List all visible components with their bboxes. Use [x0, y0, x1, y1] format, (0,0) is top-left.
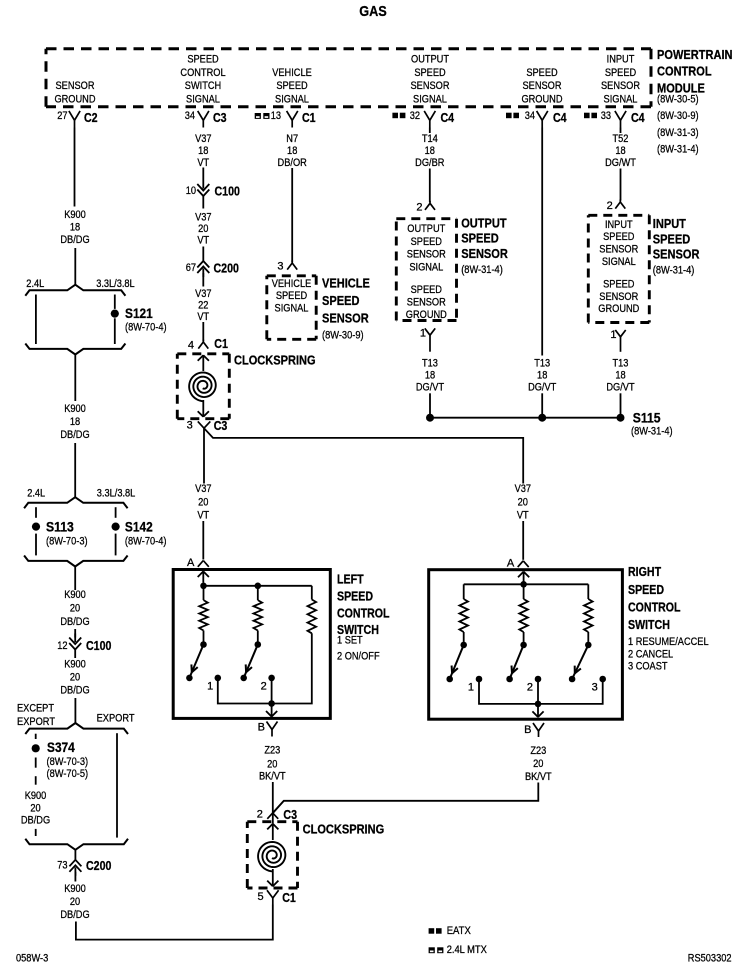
wire from C200 inline	[74, 872, 76, 882]
svg-text:T13: T13	[613, 357, 629, 369]
wire rail to R5	[523, 584, 525, 599]
wire label K900 20 DB/DG third	[60, 589, 89, 628]
svg-text:VEHICLE: VEHICLE	[322, 275, 370, 290]
svg-text:DB/DG: DB/DG	[60, 234, 89, 246]
connector C3 pin 2 at clockspring	[257, 801, 297, 822]
node R4 pivot	[460, 642, 467, 649]
split brace top at S113	[24, 497, 128, 508]
wire label V37 20 VT	[195, 211, 211, 246]
svg-text:(8W-31-4): (8W-31-4)	[631, 426, 673, 438]
svg-text:SIGNAL: SIGNAL	[275, 94, 309, 106]
clockspring U2 entry arrow	[198, 355, 209, 371]
svg-text:2: 2	[257, 808, 263, 820]
node T13 col4 junction	[426, 414, 434, 422]
svg-text:SPEED: SPEED	[461, 231, 499, 246]
inline connector C200 pin 73	[57, 859, 111, 876]
svg-text:DG/VT: DG/VT	[416, 382, 444, 394]
clockspring U3 coil	[258, 842, 285, 871]
svg-text:B: B	[258, 722, 265, 734]
svg-text:C200: C200	[86, 859, 111, 873]
svg-text:C1: C1	[214, 337, 228, 351]
wire to C100 inline	[74, 629, 76, 638]
svg-text:20: 20	[518, 497, 528, 509]
node R2 pivot	[254, 641, 261, 648]
node left switch entry	[200, 583, 207, 590]
svg-text:A: A	[187, 557, 195, 569]
wire to clockspring C1	[202, 322, 204, 341]
svg-text:EXPORT: EXPORT	[17, 716, 55, 728]
svg-text:2: 2	[261, 680, 267, 692]
pcm pin label VEHICLE SPEED SIGNAL	[272, 67, 312, 106]
resistor R3 left switch	[308, 600, 317, 634]
wire label V37 22 VT	[195, 288, 211, 323]
branch wire 3.3L/3.8L	[114, 295, 116, 345]
label EXCEPT EXPORT	[17, 702, 55, 727]
splice S121	[111, 305, 167, 334]
svg-text:1 RESUME/ACCEL: 1 RESUME/ACCEL	[628, 636, 709, 648]
svg-text:3: 3	[592, 681, 598, 693]
merge brace bottom at S121	[25, 344, 125, 355]
wire contact 1 to rail	[218, 678, 272, 704]
svg-text:T14: T14	[422, 133, 438, 145]
svg-text:N7: N7	[286, 133, 298, 145]
node left switch rail R2	[254, 583, 261, 590]
node contact 1 left	[207, 675, 221, 693]
svg-text:(8W-31-4): (8W-31-4)	[657, 143, 699, 155]
connector A right switch	[507, 557, 529, 569]
wire N7 to vehicle speed sensor	[291, 168, 293, 262]
node R1 pivot	[200, 641, 207, 648]
svg-text:POWERTRAIN: POWERTRAIN	[657, 47, 733, 62]
svg-text:K900: K900	[64, 589, 86, 601]
output speed sensor box	[396, 219, 456, 321]
svg-text:SWITCH: SWITCH	[628, 618, 670, 632]
node arm COAST tip	[569, 676, 576, 683]
legend EATX	[429, 925, 472, 937]
merge brace bottom at S374	[25, 839, 128, 850]
svg-text:18: 18	[70, 222, 80, 234]
branch wire S113	[35, 507, 37, 555]
svg-text:13: 13	[271, 110, 281, 122]
svg-text:V37: V37	[195, 211, 211, 223]
clockspring U3 box	[247, 822, 297, 888]
resistor R2 left switch	[254, 600, 263, 630]
resistor R6 right switch	[584, 599, 593, 632]
svg-text:(8W-70-4): (8W-70-4)	[125, 536, 167, 548]
node left switch exit junction	[268, 700, 275, 707]
wire label K900 20 DB/DG fifth	[60, 883, 89, 921]
svg-text:C3: C3	[283, 808, 297, 822]
svg-text:VT: VT	[197, 311, 209, 323]
pcm pin label SPEED SENSOR GROUND	[521, 67, 562, 106]
svg-text:RS503302: RS503302	[688, 953, 732, 965]
merge brace bottom at S113	[24, 556, 128, 567]
svg-text:3: 3	[187, 419, 193, 431]
svg-text:Z23: Z23	[530, 745, 546, 757]
svg-text:DB/DG: DB/DG	[60, 429, 89, 441]
svg-text:SIGNAL: SIGNAL	[604, 94, 638, 106]
svg-text:18: 18	[70, 416, 80, 428]
svg-text:SPEED: SPEED	[276, 290, 307, 302]
svg-text:27: 27	[57, 110, 67, 122]
svg-text:OUTPUT: OUTPUT	[411, 54, 449, 66]
svg-text:SPEED: SPEED	[411, 236, 442, 248]
svg-text:2 CANCEL: 2 CANCEL	[628, 648, 673, 660]
svg-text:SENSOR: SENSOR	[56, 80, 95, 92]
svg-text:S374: S374	[47, 739, 75, 755]
svg-text:12: 12	[57, 640, 67, 652]
svg-text:3: 3	[277, 261, 283, 273]
svg-text:SPEED: SPEED	[603, 231, 634, 243]
svg-text:(8W-31-4): (8W-31-4)	[653, 264, 695, 276]
svg-text:CONTROL: CONTROL	[657, 64, 712, 79]
svg-text:(8W-30-5): (8W-30-5)	[657, 94, 699, 106]
wire R6 to pivot	[587, 632, 589, 642]
svg-text:(8W-30-9): (8W-30-9)	[322, 330, 364, 342]
connector pin 3 at vehicle speed sensor	[277, 261, 297, 273]
svg-text:INPUT: INPUT	[653, 216, 686, 231]
svg-text:18: 18	[425, 370, 435, 382]
wire T14 from C4	[429, 128, 431, 134]
svg-text:INPUT: INPUT	[607, 54, 635, 66]
svg-text:VEHICLE: VEHICLE	[272, 67, 312, 79]
label 2.4L	[26, 278, 44, 290]
splice S374	[32, 739, 89, 780]
wire from S113 merge	[74, 567, 76, 591]
svg-text:GROUND: GROUND	[406, 309, 447, 321]
left switch name	[337, 573, 390, 663]
svg-text:GROUND: GROUND	[54, 94, 95, 106]
svg-text:SPEED: SPEED	[628, 583, 664, 597]
svg-text:S121: S121	[125, 305, 153, 321]
resistor R5 right switch	[519, 599, 528, 632]
svg-text:K900: K900	[64, 403, 86, 415]
svg-text:T13: T13	[422, 357, 438, 369]
svg-text:33: 33	[601, 110, 611, 122]
node contact 2 left	[261, 675, 275, 693]
connector C4 pin 32 with EATX squares	[392, 110, 454, 128]
wire rail to R3	[311, 586, 313, 600]
resistor R4 right switch	[459, 599, 468, 632]
wire from C100 inline	[74, 650, 76, 659]
node contact 1 right	[468, 676, 482, 694]
svg-text:CONTROL: CONTROL	[628, 600, 681, 614]
connector pin 1 below input speed sensor	[610, 329, 625, 352]
svg-text:SPEED: SPEED	[411, 284, 442, 296]
node contact 2 right	[527, 676, 541, 694]
wire to splice split S121	[74, 248, 76, 285]
svg-text:SENSOR: SENSOR	[523, 80, 562, 92]
svg-text:(8W-31-4): (8W-31-4)	[461, 264, 503, 276]
clockspring U2 coil	[189, 372, 216, 401]
wire to left switch A	[202, 521, 204, 560]
right switch name	[628, 565, 709, 673]
wire R1 to pivot	[203, 631, 205, 642]
wire label V37 20 VT left	[195, 483, 211, 521]
svg-text:VT: VT	[197, 157, 209, 169]
svg-text:INPUT: INPUT	[605, 219, 633, 231]
svg-text:SPEED: SPEED	[603, 279, 634, 291]
svg-text:VT: VT	[197, 510, 209, 522]
svg-text:73: 73	[57, 860, 67, 872]
wire speed sensor ground from C4	[541, 128, 543, 356]
right switch exit arrow	[532, 704, 543, 717]
wire label K900 20 DB/DG fourth	[60, 659, 89, 697]
svg-text:C200: C200	[214, 262, 239, 276]
svg-text:T13: T13	[534, 357, 550, 369]
wire label T13 18 DG/VT col4	[416, 357, 444, 393]
svg-text:B: B	[524, 724, 531, 736]
svg-text:S113: S113	[46, 519, 74, 535]
svg-text:A: A	[507, 557, 515, 569]
pcm pin label SENSOR GROUND	[54, 80, 95, 105]
svg-text:CONTROL: CONTROL	[337, 606, 390, 620]
wire to C200 inline	[202, 247, 204, 261]
svg-text:3.3L/3.8L: 3.3L/3.8L	[97, 488, 136, 500]
connector B left switch	[258, 722, 278, 737]
svg-text:SENSOR: SENSOR	[653, 246, 700, 261]
wire from C200 to label	[202, 273, 204, 287]
clockspring U2 exit arrow	[198, 400, 209, 417]
svg-text:SENSOR: SENSOR	[407, 296, 446, 308]
wire label K900 18 DB/DG second	[60, 403, 89, 441]
svg-text:S115: S115	[633, 410, 661, 426]
svg-text:CLOCKSPRING: CLOCKSPRING	[234, 353, 316, 368]
svg-text:SIGNAL: SIGNAL	[602, 256, 636, 268]
node arm CANCEL tip	[506, 676, 513, 683]
connector C4 pin 34 with EATX squares	[506, 110, 567, 128]
right switch top rail	[464, 583, 589, 585]
wire label T13 18 DG/VT col5	[528, 357, 556, 393]
footer sheet number 058W-3	[16, 953, 48, 965]
svg-text:DG/BR: DG/BR	[415, 157, 444, 169]
branch wire S142	[115, 507, 117, 555]
wire label K900 18 DB/DG	[60, 209, 89, 246]
svg-text:EXCEPT: EXCEPT	[17, 702, 54, 714]
connector pin 1 below output speed sensor	[420, 328, 435, 352]
svg-text:1 SET: 1 SET	[337, 635, 363, 647]
svg-text:2: 2	[607, 200, 613, 212]
clockspring U3 exit arrow	[267, 869, 278, 886]
svg-text:18: 18	[425, 145, 435, 157]
wire T52 from C4	[620, 128, 622, 134]
svg-text:C100: C100	[86, 639, 111, 653]
label 2.4L second	[27, 488, 45, 500]
svg-text:(8W-70-5): (8W-70-5)	[47, 768, 89, 780]
label 3.3L/3.8L second	[97, 488, 136, 500]
svg-text:V37: V37	[195, 483, 211, 495]
wire to splice split S113/S142	[74, 443, 76, 498]
svg-text:EXPORT: EXPORT	[97, 712, 135, 724]
wire Z23 right to clockspring	[273, 783, 539, 814]
svg-text:SENSOR: SENSOR	[411, 80, 450, 92]
wire T13 to splice S115	[620, 393, 622, 414]
svg-text:2: 2	[416, 202, 422, 214]
output speed sensor pin labels	[406, 223, 447, 321]
svg-text:2.4L MTX: 2.4L MTX	[447, 944, 488, 956]
svg-text:20: 20	[198, 497, 208, 509]
svg-text:3 COAST: 3 COAST	[628, 661, 668, 673]
svg-text:K900: K900	[64, 659, 86, 671]
connector C3 pin 34	[185, 110, 227, 128]
svg-text:EATX: EATX	[447, 925, 472, 937]
connector C1 pin 4 at clockspring	[188, 337, 228, 352]
svg-text:C3: C3	[214, 419, 228, 433]
wire to right switch A	[522, 521, 524, 560]
svg-text:(8W-70-3): (8W-70-3)	[47, 756, 89, 768]
svg-text:1: 1	[468, 681, 474, 693]
node right switch exit junction	[535, 701, 542, 708]
svg-text:DB/DG: DB/DG	[21, 815, 50, 827]
vehicle speed sensor box	[267, 276, 316, 340]
wire S115 ground rail	[430, 417, 621, 419]
svg-text:058W-3: 058W-3	[16, 953, 48, 965]
vehicle speed sensor name	[322, 275, 370, 341]
svg-text:1: 1	[420, 328, 426, 340]
svg-text:CLOCKSPRING: CLOCKSPRING	[303, 821, 385, 836]
right speed control switch box	[429, 570, 623, 720]
resistor R1 left switch	[199, 600, 208, 630]
svg-text:K900: K900	[64, 209, 86, 221]
svg-text:SPEED: SPEED	[526, 67, 557, 79]
svg-text:34: 34	[525, 110, 535, 122]
svg-text:2 ON/OFF: 2 ON/OFF	[337, 651, 380, 663]
svg-text:3.3L/3.8L: 3.3L/3.8L	[96, 278, 135, 290]
svg-text:SPEED: SPEED	[605, 67, 636, 79]
switch arm COAST	[572, 645, 588, 679]
wire R3 to bottom rail	[272, 633, 312, 703]
wire label T14 18 DG/BR	[415, 133, 444, 169]
split brace top at S121	[25, 285, 125, 296]
label 3.3L/3.8L	[96, 278, 135, 290]
svg-text:C1: C1	[302, 111, 316, 125]
wire rail to R6	[587, 584, 589, 599]
wire R2 to pivot	[257, 631, 259, 642]
input speed sensor name	[653, 216, 700, 276]
wire from S374 merge	[74, 850, 76, 860]
label EXPORT	[97, 712, 135, 724]
wire rail to R4	[463, 584, 465, 599]
svg-text:20: 20	[70, 603, 80, 615]
svg-text:OUTPUT: OUTPUT	[461, 215, 506, 230]
svg-text:SPEED: SPEED	[653, 231, 691, 246]
svg-text:2.4L: 2.4L	[26, 278, 44, 290]
input speed sensor box	[588, 215, 649, 322]
pcm name POWERTRAIN CONTROL MODULE	[657, 47, 733, 155]
svg-text:SENSOR: SENSOR	[601, 80, 640, 92]
svg-text:GROUND: GROUND	[521, 94, 562, 106]
svg-text:DB/DG: DB/DG	[60, 616, 89, 628]
wire label K900 20 DB/DG on except-export branch	[21, 790, 50, 827]
svg-text:Z23: Z23	[264, 745, 280, 757]
wire T52 to input speed sensor	[620, 169, 622, 201]
split brace top at S374	[25, 723, 128, 734]
svg-text:SENSOR: SENSOR	[322, 311, 369, 326]
svg-text:DG/VT: DG/VT	[528, 382, 556, 394]
svg-text:CONTROL: CONTROL	[180, 67, 225, 79]
svg-text:SWITCH: SWITCH	[185, 80, 221, 92]
svg-text:SENSOR: SENSOR	[461, 246, 508, 261]
svg-text:20: 20	[198, 223, 208, 235]
svg-text:S142: S142	[125, 519, 153, 535]
switch arm RESUME	[450, 645, 464, 679]
svg-text:SENSOR: SENSOR	[599, 244, 638, 256]
svg-text:DB/DG: DB/DG	[60, 685, 89, 697]
wire rail to R1	[203, 586, 205, 600]
svg-text:C4: C4	[441, 111, 455, 125]
wire Z23 left to clockspring	[272, 782, 274, 813]
clockspring U3 entry arrow	[267, 824, 278, 840]
splice S142	[112, 519, 167, 548]
svg-text:(8W-31-3): (8W-31-3)	[657, 127, 699, 139]
svg-text:DG/WT: DG/WT	[605, 157, 636, 169]
svg-text:C3: C3	[213, 111, 227, 125]
svg-text:1: 1	[207, 680, 213, 692]
wire K900 from C2	[74, 128, 76, 207]
node arm ON/OFF tip	[240, 675, 247, 682]
svg-text:SIGNAL: SIGNAL	[186, 94, 220, 106]
svg-text:C1: C1	[282, 891, 296, 905]
connector B right switch	[524, 723, 544, 737]
svg-text:VT: VT	[197, 235, 209, 247]
wire branch to right switch	[204, 428, 523, 483]
svg-text:18: 18	[537, 370, 547, 382]
svg-text:C4: C4	[631, 111, 645, 125]
connector C3 pin 3 at clockspring	[187, 419, 228, 433]
svg-text:18: 18	[287, 145, 297, 157]
legend 2.4L MTX	[429, 944, 488, 956]
footer drawing number RS503302	[688, 953, 732, 965]
connector C1 pin 13 with 2.4L MTX squares	[255, 110, 316, 128]
clockspring U2 name	[234, 353, 316, 368]
wire label N7 18 DB/OR	[278, 133, 307, 169]
inline connector C100 pin 10	[186, 180, 240, 199]
wire contact 2 to rail right	[537, 679, 539, 704]
svg-text:(8W-30-9): (8W-30-9)	[657, 110, 699, 122]
wire label Z23 20 BK/VT right	[525, 745, 552, 783]
svg-text:GROUND: GROUND	[598, 303, 639, 315]
svg-text:(8W-70-4): (8W-70-4)	[125, 322, 167, 334]
svg-text:DG/VT: DG/VT	[606, 382, 634, 394]
node right switch entry	[520, 581, 527, 588]
svg-text:LEFT: LEFT	[337, 573, 364, 587]
left switch top rail	[204, 585, 312, 587]
wire label T13 18 DG/VT col6	[606, 357, 634, 393]
branch wire 2.4L	[35, 295, 37, 345]
svg-text:67: 67	[186, 262, 196, 274]
svg-text:SPEED: SPEED	[322, 293, 360, 308]
svg-text:DB/OR: DB/OR	[278, 157, 307, 169]
svg-text:SPEED: SPEED	[337, 589, 373, 603]
svg-text:SIGNAL: SIGNAL	[409, 262, 443, 274]
connector pin 2 at input speed sensor	[607, 200, 626, 213]
wire K900 to clockspring C1 node	[76, 905, 273, 940]
branch wire except-export dashed	[35, 734, 37, 836]
svg-text:1: 1	[610, 329, 616, 341]
input speed sensor pin labels	[598, 219, 639, 315]
svg-text:20: 20	[30, 803, 40, 815]
svg-text:V37: V37	[195, 288, 211, 300]
title GAS	[359, 3, 387, 20]
branch wire export	[116, 733, 118, 837]
pcm pin label INPUT SPEED SENSOR SIGNAL	[601, 54, 640, 106]
svg-text:10: 10	[186, 185, 196, 197]
powertrain control module box U1	[46, 49, 651, 107]
wire T14 to output speed sensor	[429, 169, 431, 203]
wire into clockspring U3	[272, 813, 274, 823]
vehicle speed sensor pin label	[272, 278, 312, 315]
output speed sensor name	[461, 215, 508, 276]
